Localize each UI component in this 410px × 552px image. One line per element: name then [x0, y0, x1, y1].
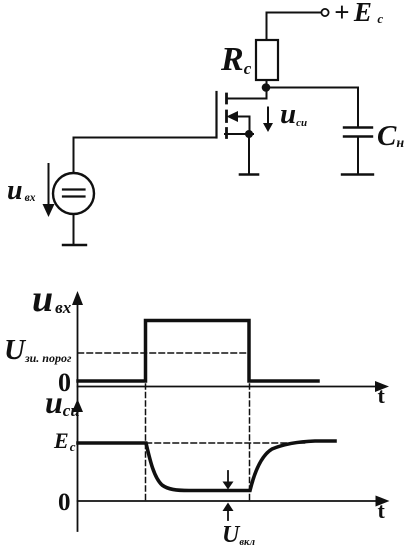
- transistor VT channel: [225, 94, 228, 138]
- terminal +Ec: [321, 9, 328, 16]
- ground source: [240, 173, 258, 176]
- dashed marker t1: [145, 384, 147, 500]
- wire junction to capacitor: [266, 87, 358, 89]
- capacitor Cn: [357, 88, 359, 128]
- threshold dashed line: [78, 352, 249, 354]
- svg-text:+Ec: +Ec: [334, 0, 388, 27]
- node drain junction: [262, 83, 271, 92]
- svg-text:t: t: [378, 498, 386, 523]
- svg-text:Rc: Rc: [220, 41, 252, 78]
- ground capacitor: [342, 173, 373, 175]
- axis X t plot1: [78, 386, 379, 388]
- svg-text:uвх: uвх: [7, 175, 36, 206]
- transistor VT source stub: [225, 133, 253, 135]
- wire resistor to junction: [266, 80, 268, 88]
- svg-text:uси: uси: [280, 98, 307, 130]
- svg-text:Cн: Cн: [377, 120, 404, 152]
- svg-text:Ec: Ec: [53, 428, 76, 454]
- svg-text:0: 0: [58, 489, 71, 516]
- arrow U_vkl up: [227, 511, 229, 520]
- arrow U_vkl down: [227, 471, 229, 482]
- axis X t plot2: [78, 500, 379, 502]
- dashed marker t2: [249, 384, 251, 500]
- source VG input circle: [53, 173, 94, 214]
- wire gate input: [74, 138, 217, 174]
- waveform u_vx: [78, 321, 318, 382]
- arrow u_vx: [48, 164, 50, 206]
- svg-text:t: t: [378, 383, 386, 408]
- svg-text:Uвкл: Uвкл: [222, 522, 256, 548]
- dashed E_c level: [146, 442, 305, 444]
- transistor VT gate: [215, 92, 217, 138]
- ground input source: [63, 244, 86, 246]
- axis Y u_vx plot: [77, 297, 79, 531]
- resistor Rc: [256, 40, 278, 80]
- wire drain connection: [227, 88, 267, 99]
- waveform u_si: [78, 441, 335, 491]
- wire source down: [248, 134, 250, 174]
- wire top supply: [267, 13, 322, 41]
- arrow u_si: [267, 108, 269, 125]
- wire below source: [73, 214, 75, 244]
- svg-text:uси: uси: [45, 384, 80, 420]
- svg-text:uвх: uвх: [32, 278, 72, 320]
- svg-text:Uзи. порог: Uзи. порог: [4, 334, 72, 366]
- node source junction: [245, 130, 253, 138]
- transistor VT body arrow: [227, 111, 239, 122]
- axis Y u_si plot arrowhead: [72, 399, 83, 412]
